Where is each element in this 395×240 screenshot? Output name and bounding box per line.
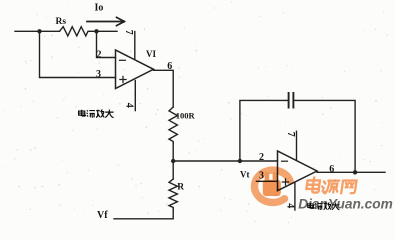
caption stage 2: dian liu fang da [308, 202, 340, 210]
op-amp V1 triangle [116, 50, 154, 89]
resistor R [169, 179, 177, 209]
wire feedback: node A down to pin 3 of V1 [40, 31, 116, 77]
svg-text:2: 2 [97, 50, 102, 61]
wire R bottom to Vf [114, 209, 173, 219]
svg-text:Vt: Vt [240, 170, 250, 180]
resistor Rs [60, 27, 90, 36]
op-amp U2 minus input mark [282, 160, 288, 162]
svg-text:VI: VI [146, 49, 156, 59]
wire U2 output [317, 171, 385, 173]
junction divider tap [171, 159, 175, 163]
svg-text:6: 6 [167, 61, 172, 72]
wire Rs right to stub end [90, 30, 118, 32]
svg-text:4: 4 [285, 203, 296, 208]
svg-text:2: 2 [259, 152, 264, 163]
op-amp U2 plus input mark [282, 179, 288, 185]
wire between 100R and R [172, 143, 174, 179]
caption stage 1: dian liu fang da [79, 109, 114, 117]
junction capacitor branch [238, 159, 242, 163]
svg-text:6: 6 [329, 164, 334, 175]
capacitor C plates [289, 93, 294, 108]
wire divider tap to U2 pin 2 [173, 160, 277, 162]
resistor 100R [169, 107, 177, 143]
wire input top [15, 30, 60, 32]
svg-text:3: 3 [96, 69, 101, 80]
svg-text:4: 4 [124, 103, 135, 108]
current arrow Io [87, 17, 125, 25]
svg-text:DianYuan.com: DianYuan.com [298, 196, 393, 211]
junction node A [37, 29, 41, 33]
svg-text:Rs: Rs [56, 17, 67, 27]
svg-text:Io: Io [95, 3, 104, 14]
watermark text dian yuan wang [306, 177, 357, 193]
watermark logo ring [255, 170, 290, 202]
junction node B [94, 29, 98, 33]
wire capacitor left branch [240, 100, 288, 161]
watermark plug [263, 172, 281, 196]
wire node B down to pin 2 of V1 [97, 31, 116, 57]
pin 4 stub of V1 [134, 81, 136, 111]
junction U2 output [353, 170, 357, 174]
svg-text:100R: 100R [176, 110, 196, 120]
svg-text:R: R [177, 182, 184, 192]
op-amp V1 plus input mark [120, 76, 126, 82]
wire V1 output to node [154, 70, 174, 107]
svg-text:7: 7 [123, 30, 134, 35]
pin 7 stub of V1 [134, 32, 136, 59]
op-amp V1 minus input mark [120, 59, 126, 61]
pin 7 stub of U2 [296, 131, 298, 160]
wire capacitor right branch [294, 100, 355, 171]
svg-text:7: 7 [285, 132, 296, 137]
op-amp U2 triangle [278, 151, 318, 191]
pin 4 stub of U2 [294, 183, 296, 211]
svg-text:Vf: Vf [97, 210, 108, 221]
wire U2 pin 3 stub [257, 180, 278, 182]
